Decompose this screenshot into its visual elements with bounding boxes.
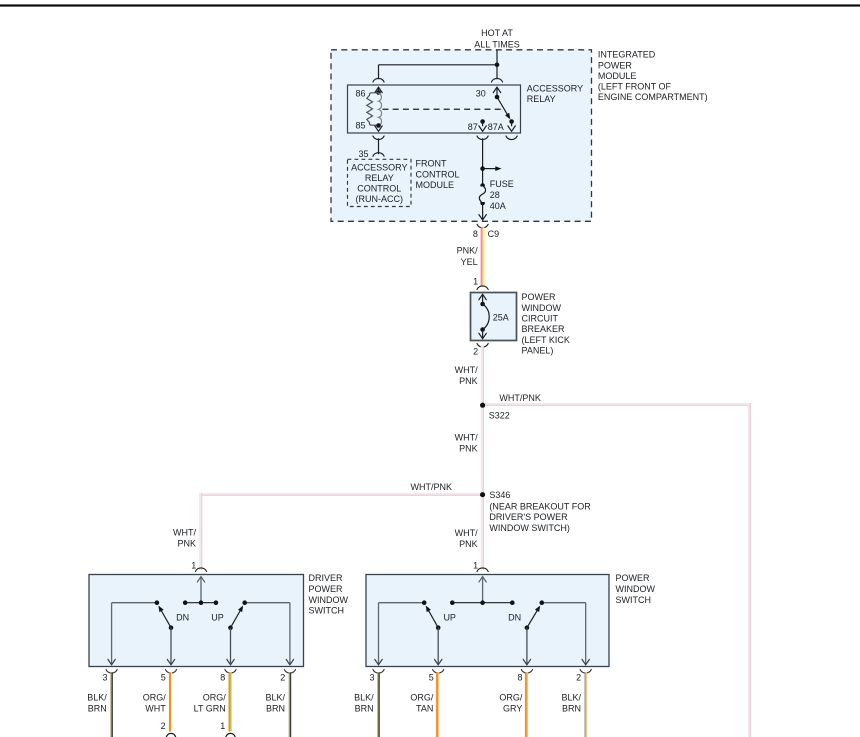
svg-text:DN: DN [508, 613, 521, 623]
svg-text:POWER: POWER [522, 292, 557, 302]
svg-text:PANEL): PANEL) [522, 346, 554, 356]
svg-text:WHT: WHT [145, 703, 166, 713]
svg-text:BRN: BRN [355, 703, 374, 713]
svg-text:ORG/: ORG/ [203, 692, 227, 702]
svg-text:8: 8 [473, 229, 478, 239]
svg-text:ENGINE COMPARTMENT): ENGINE COMPARTMENT) [598, 92, 708, 102]
svg-text:87: 87 [468, 122, 478, 132]
svg-text:WHT/PNK: WHT/PNK [499, 393, 541, 403]
svg-text:YEL: YEL [461, 257, 478, 267]
svg-text:PNK: PNK [459, 539, 478, 549]
svg-text:FUSE: FUSE [490, 179, 514, 189]
svg-text:(LEFT KICK: (LEFT KICK [522, 335, 570, 345]
svg-text:MODULE: MODULE [598, 71, 637, 81]
svg-text:WINDOW: WINDOW [309, 595, 349, 605]
svg-text:BREAKER: BREAKER [522, 324, 566, 334]
svg-text:SWITCH: SWITCH [616, 595, 652, 605]
svg-text:(RUN-ACC): (RUN-ACC) [356, 194, 404, 204]
svg-text:5: 5 [161, 673, 166, 683]
svg-text:87A: 87A [488, 122, 504, 132]
svg-text:PNK/: PNK/ [457, 246, 479, 256]
svg-text:40A: 40A [490, 201, 506, 211]
svg-text:ALL TIMES: ALL TIMES [474, 39, 520, 49]
svg-text:5: 5 [429, 673, 434, 683]
svg-text:BRN: BRN [266, 703, 285, 713]
svg-text:WHT/PNK: WHT/PNK [411, 482, 453, 492]
svg-text:INTEGRATED: INTEGRATED [598, 50, 656, 60]
svg-text:WINDOW SWITCH): WINDOW SWITCH) [489, 523, 569, 533]
svg-text:DN: DN [176, 612, 189, 622]
svg-text:WHT/: WHT/ [455, 528, 478, 538]
svg-text:UP: UP [211, 612, 224, 622]
svg-text:HOT AT: HOT AT [481, 28, 513, 38]
svg-text:POWER: POWER [309, 584, 344, 594]
svg-text:85: 85 [355, 121, 365, 131]
svg-text:LT GRN: LT GRN [194, 703, 226, 713]
svg-text:28: 28 [490, 190, 500, 200]
svg-text:FRONT: FRONT [416, 159, 447, 169]
svg-text:1: 1 [473, 561, 478, 571]
svg-text:WHT/: WHT/ [455, 365, 478, 375]
svg-text:1: 1 [191, 561, 196, 571]
svg-text:2: 2 [473, 347, 478, 357]
svg-text:UP: UP [443, 613, 456, 623]
svg-text:ACCESSORY: ACCESSORY [351, 163, 407, 173]
svg-text:1: 1 [473, 277, 478, 287]
svg-text:(LEFT FRONT OF: (LEFT FRONT OF [598, 82, 672, 92]
svg-text:RELAY: RELAY [365, 173, 394, 183]
svg-text:86: 86 [355, 89, 365, 99]
svg-text:GRY: GRY [503, 703, 522, 713]
svg-text:WHT/: WHT/ [455, 433, 478, 443]
svg-text:8: 8 [220, 673, 225, 683]
svg-text:BLK/: BLK/ [561, 692, 581, 702]
svg-text:CIRCUIT: CIRCUIT [522, 314, 559, 324]
svg-text:RELAY: RELAY [527, 94, 556, 104]
svg-text:BLK/: BLK/ [354, 692, 374, 702]
svg-text:PNK: PNK [459, 444, 478, 454]
svg-text:ORG/: ORG/ [499, 692, 523, 702]
svg-text:(NEAR BREAKOUT FOR: (NEAR BREAKOUT FOR [489, 501, 591, 511]
svg-text:CONTROL: CONTROL [416, 169, 460, 179]
svg-text:S346: S346 [489, 490, 510, 500]
svg-text:C9: C9 [488, 229, 500, 239]
svg-text:8: 8 [517, 673, 522, 683]
svg-text:POWER: POWER [598, 60, 633, 70]
svg-text:30: 30 [476, 89, 486, 99]
svg-text:ORG/: ORG/ [410, 692, 434, 702]
svg-text:ACCESSORY: ACCESSORY [527, 83, 583, 93]
svg-text:3: 3 [102, 673, 107, 683]
svg-text:BRN: BRN [562, 703, 581, 713]
svg-text:SWITCH: SWITCH [309, 606, 345, 616]
svg-text:BLK/: BLK/ [87, 692, 107, 702]
svg-text:WHT/: WHT/ [173, 528, 196, 538]
svg-text:POWER: POWER [616, 573, 651, 583]
svg-text:MODULE: MODULE [416, 180, 455, 190]
svg-text:2: 2 [161, 721, 166, 731]
svg-text:PNK: PNK [459, 376, 478, 386]
svg-text:25A: 25A [493, 313, 509, 323]
svg-text:WINDOW: WINDOW [522, 303, 562, 313]
svg-text:3: 3 [369, 673, 374, 683]
svg-text:S322: S322 [489, 411, 510, 421]
svg-text:35: 35 [358, 149, 368, 159]
svg-text:DRIVER'S POWER: DRIVER'S POWER [489, 512, 568, 522]
svg-text:2: 2 [280, 673, 285, 683]
svg-text:2: 2 [576, 673, 581, 683]
svg-text:1: 1 [220, 721, 225, 731]
svg-text:PNK: PNK [177, 539, 196, 549]
svg-text:BLK/: BLK/ [265, 692, 285, 702]
svg-text:ORG/: ORG/ [143, 692, 167, 702]
svg-text:BRN: BRN [88, 703, 107, 713]
svg-text:CONTROL: CONTROL [357, 184, 401, 194]
svg-text:TAN: TAN [416, 703, 433, 713]
svg-text:DRIVER: DRIVER [309, 573, 344, 583]
svg-text:WINDOW: WINDOW [616, 584, 656, 594]
